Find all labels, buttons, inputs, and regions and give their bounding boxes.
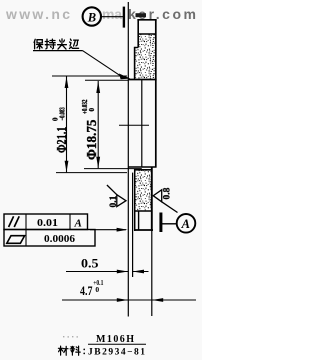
- note underline: [33, 50, 83, 52]
- svg-text:A: A: [181, 217, 190, 231]
- liao: [70, 346, 80, 355]
- cap left edge: [137, 19, 139, 47]
- part bottom edge: [135, 229, 153, 231]
- tolerance frame 2 flatness: [4, 230, 95, 247]
- svg-text:−0.083: −0.083: [58, 107, 66, 121]
- bottom block top edge: [135, 169, 152, 171]
- stipple top: [136, 35, 155, 79]
- bore step edge V4: [141, 80, 143, 167]
- centerline: [119, 124, 149, 126]
- leader from B: [100, 16, 123, 18]
- svg-text:0.5: 0.5: [81, 255, 99, 270]
- colon: [83, 349, 85, 353]
- svg-text:A: A: [74, 218, 82, 230]
- svg-text:Φ21.1: Φ21.1: [54, 126, 69, 153]
- tolerance frame 1 parallelism: [4, 214, 88, 230]
- note keep-sharp-edge (Chinese): [34, 39, 79, 49]
- 尖: [58, 39, 67, 49]
- dim phi21.1: [51, 76, 127, 173]
- svg-text:4.7: 4.7: [80, 283, 93, 298]
- stray specks: [63, 336, 78, 338]
- dim phi18.75: [81, 80, 142, 168]
- right face V6: [155, 19, 157, 166]
- dark bar top right: [136, 13, 147, 17]
- step horizontal: [135, 47, 139, 49]
- V2 disc right edge: [132, 173, 134, 277]
- title M106H over JB2934-81: [88, 334, 146, 358]
- svg-text:0: 0: [95, 285, 99, 294]
- svg-text:0.8: 0.8: [162, 187, 172, 199]
- svg-text:ma: ma: [102, 6, 122, 22]
- watermark top: [5, 6, 196, 22]
- svg-text:M106H: M106H: [96, 334, 134, 345]
- dim 4.7: [62, 278, 196, 302]
- 保: [34, 39, 43, 49]
- balloon B: [83, 7, 101, 25]
- flange bottom / bore top edge: [128, 79, 156, 81]
- frame leader arrow: [90, 229, 126, 231]
- note leader arrow: [83, 51, 122, 77]
- svg-text:0.1: 0.1: [109, 195, 119, 207]
- edge tick B: [123, 7, 125, 28]
- bottom block right edge + ext: [151, 167, 153, 231]
- cap divider: [138, 33, 156, 35]
- bottom block bottom edge: [135, 210, 153, 212]
- svg-text:0.01: 0.01: [37, 217, 58, 229]
- bottom block: [136, 170, 152, 210]
- svg-text:www.nc: www.nc: [5, 6, 70, 22]
- dim 0.5: [66, 255, 149, 273]
- roughness 0.1: [107, 185, 126, 207]
- svg-text:B: B: [87, 11, 96, 25]
- bottom bore edge: [128, 166, 156, 168]
- svg-text:JB2934−81: JB2934−81: [88, 348, 145, 358]
- svg-text:0: 0: [88, 108, 96, 112]
- 持: [45, 39, 55, 49]
- svg-text:0.0006: 0.0006: [44, 233, 76, 245]
- roughness 0.8: [153, 190, 177, 213]
- cailiao label (Chinese): [58, 346, 84, 355]
- svg-text:Φ18.75: Φ18.75: [84, 119, 99, 160]
- top block left edge: [134, 47, 136, 80]
- top edge: [137, 19, 156, 21]
- vertical V1 full axis-side line: [127, 2, 129, 317]
- 边: [69, 39, 78, 48]
- datum A: [161, 213, 195, 233]
- bottom white step left edge: [138, 211, 140, 230]
- cai: [58, 346, 68, 355]
- bottom block left edge: [134, 169, 136, 231]
